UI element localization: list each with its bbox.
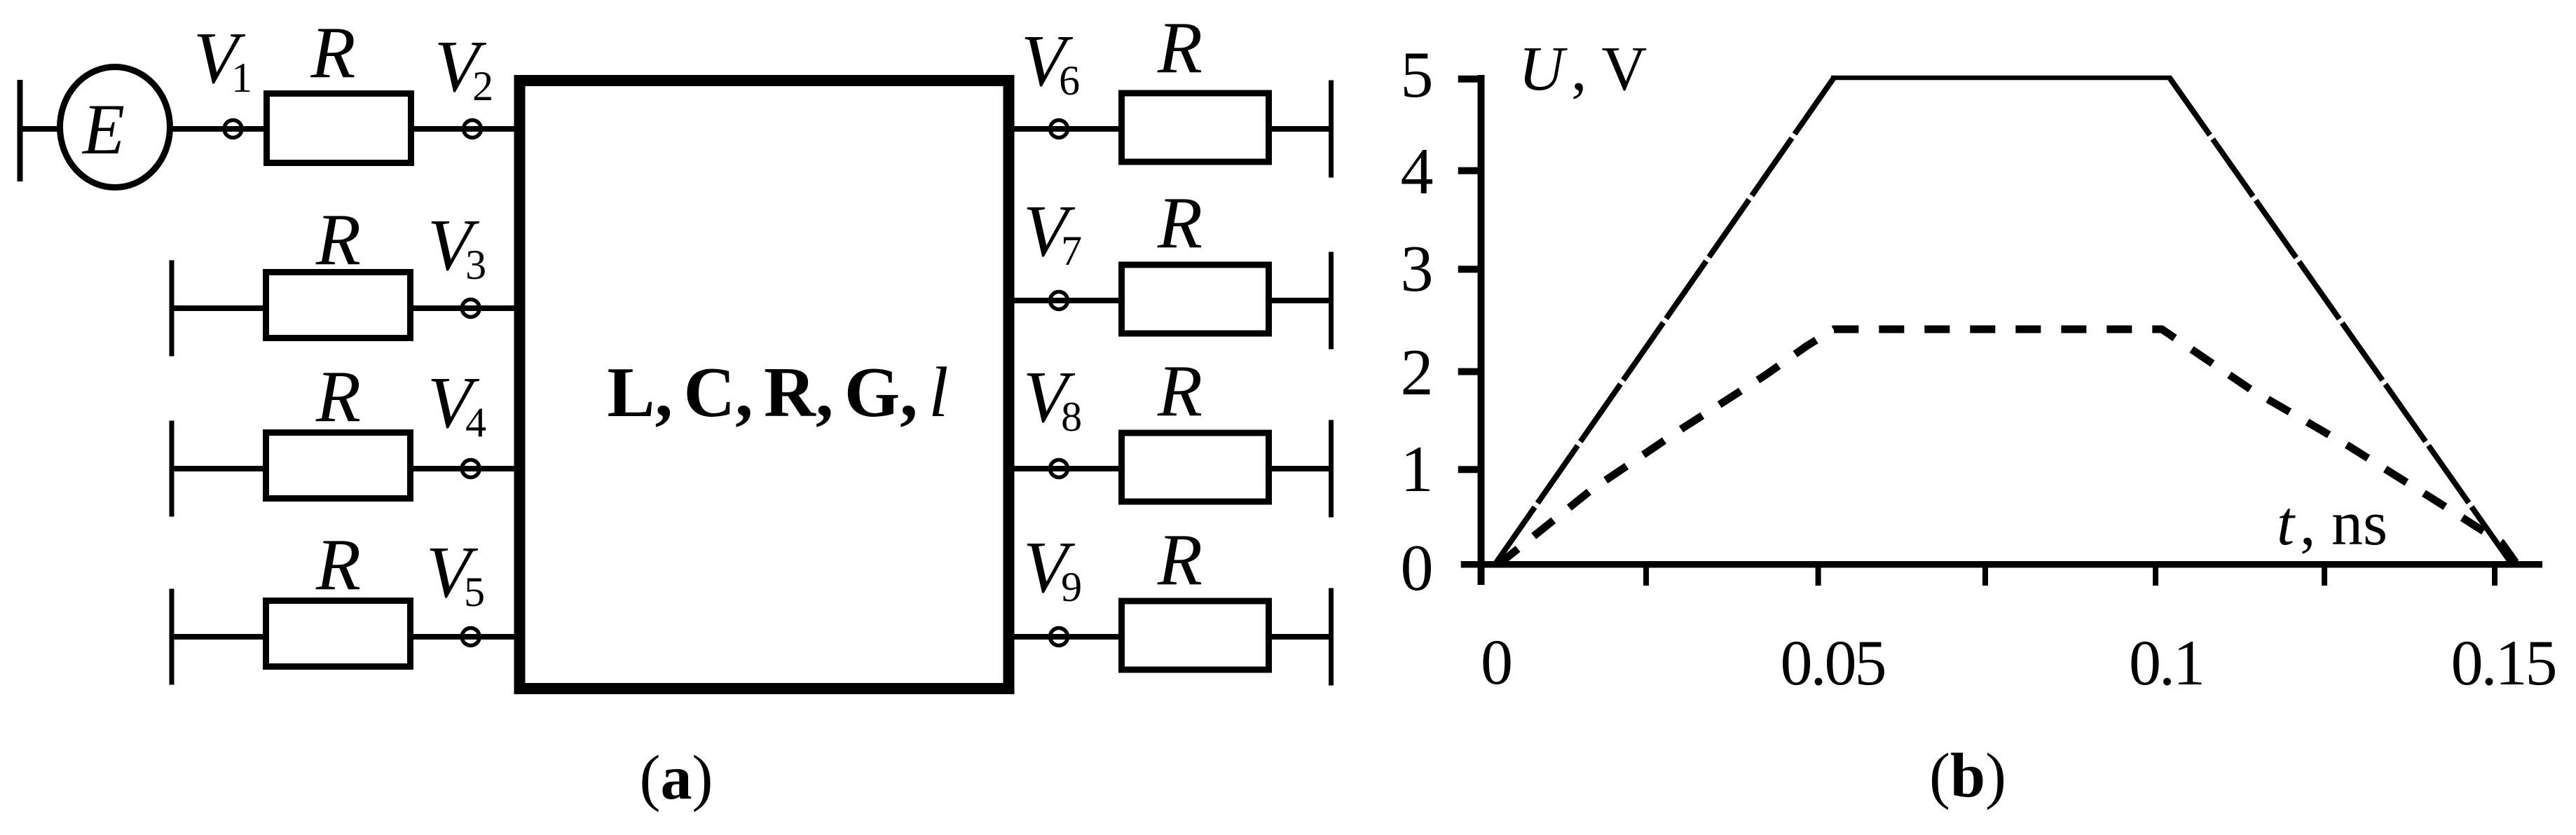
terminal left row4 [170,589,174,685]
svg-text:1: 1 [1401,433,1434,506]
x tick 0.1 [2153,565,2158,586]
svg-text:(b): (b) [1929,741,2006,810]
resistor R row1 left [267,94,411,163]
x tick 0.025 [1643,565,1649,586]
svg-text:0.05: 0.05 [1781,627,1885,698]
terminal right row3 [1329,420,1334,518]
svg-text:0: 0 [1481,626,1513,698]
x tick 0.125 [2322,565,2327,586]
resistor R row3 right [1122,433,1269,502]
wire [1266,298,1329,303]
node V5 [462,628,479,646]
y tick 2 [1458,368,1481,375]
node V7 [1050,292,1068,310]
node V4 [462,460,479,478]
terminal right row1 [1329,81,1334,178]
x axis t [1461,561,2542,568]
terminal right row2 [1329,252,1334,350]
node V3 [462,300,479,317]
svg-text:0: 0 [1401,532,1434,605]
x tick 0.075 [1982,565,1988,586]
wire [411,126,519,132]
svg-text:R: R [1157,518,1203,600]
wire [1009,634,1124,640]
svg-text:R: R [1157,350,1203,432]
source E [60,67,170,188]
wire [1266,126,1329,132]
svg-text:U, V: U, V [1519,34,1647,104]
terminal left row1 [18,80,23,181]
wire [172,634,268,640]
node V6 [1050,120,1068,138]
node V9 [1050,628,1068,646]
svg-text:5: 5 [1401,39,1434,111]
wire [20,126,62,132]
svg-text:R: R [310,11,355,93]
svg-text:2: 2 [1401,336,1434,409]
svg-text:E: E [81,90,125,170]
svg-text:R: R [315,355,361,437]
svg-text:(a): (a) [640,743,713,813]
resistor R row4 left [266,601,411,667]
wire [410,305,519,311]
solid curve plateau [1831,76,2172,81]
terminal left row3 [170,421,174,517]
transmission line box L,C,R,G,l [520,81,1009,689]
svg-text:R: R [1157,181,1203,263]
y axis U [1478,75,1485,585]
svg-text:0.1: 0.1 [2129,627,2203,698]
node V2 [464,120,481,138]
resistor R row2 right [1122,265,1269,333]
y tick 1 [1458,466,1481,473]
svg-text:3: 3 [1401,233,1434,305]
resistor R row4 right [1122,601,1269,670]
wire [410,634,519,640]
y tick 4 [1458,167,1481,174]
wire [1009,126,1124,132]
svg-text:R: R [315,198,361,280]
wire [410,466,519,471]
x tick 0.05 [1816,565,1821,586]
dashed curve (half amplitude) [1498,329,2517,565]
resistor R row1 right [1122,93,1269,162]
terminal right row4 [1329,588,1334,686]
resistor R row2 left [266,272,411,338]
x tick 0.15 [2492,565,2498,586]
svg-text:0.15: 0.15 [2451,627,2556,698]
svg-text:R: R [1157,6,1203,88]
svg-text:4: 4 [1401,135,1434,208]
node V1 [224,120,242,138]
wire [1009,298,1124,303]
wire [172,305,268,311]
wire [1009,466,1124,471]
wire [1266,466,1329,471]
svg-text:R: R [315,523,361,605]
wire [172,466,268,471]
svg-text:L, C, R, G, l: L, C, R, G, l [607,353,948,432]
wire [1266,634,1329,640]
y tick 3 [1458,265,1481,272]
wire [170,126,266,132]
solid curve rise [1495,78,1834,565]
node V8 [1050,460,1068,478]
svg-text:t, ns: t, ns [2277,489,2387,558]
terminal left row2 [170,261,174,357]
resistor R row3 left [266,433,411,499]
y tick 5 [1458,76,1481,83]
solid curve fall [2170,78,2512,565]
